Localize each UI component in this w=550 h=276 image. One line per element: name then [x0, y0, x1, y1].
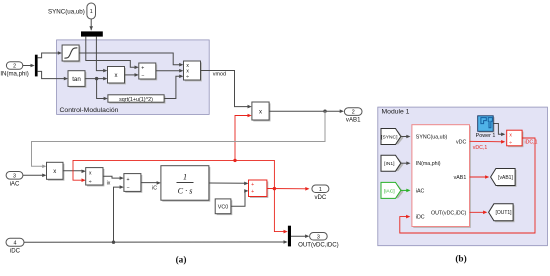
svg-text:iDC: iDC — [10, 248, 21, 255]
svg-text:iC: iC — [152, 185, 157, 191]
svg-text:+: + — [126, 177, 129, 183]
svg-text:Control-Modulación: Control-Modulación — [60, 107, 119, 114]
svg-text:÷: ÷ — [186, 75, 189, 81]
svg-text:1: 1 — [183, 172, 187, 181]
svg-text:2: 2 — [13, 64, 16, 70]
svg-text:+: + — [141, 66, 144, 72]
svg-text:2: 2 — [352, 110, 355, 116]
svg-text:OUT(vDC,iDC): OUT(vDC,iDC) — [431, 210, 467, 216]
svg-text:iAC: iAC — [10, 180, 20, 187]
svg-text:3: 3 — [317, 234, 320, 240]
svg-text:4: 4 — [14, 240, 17, 246]
svg-text:(a): (a) — [176, 254, 187, 265]
svg-text:tan: tan — [72, 76, 81, 83]
svg-text:x: x — [53, 169, 56, 175]
svg-text:(b): (b) — [455, 253, 466, 264]
svg-text:sqrt(1+u(1)^2): sqrt(1+u(1)^2) — [119, 97, 153, 103]
svg-text:[OUT1]: [OUT1] — [495, 210, 512, 216]
svg-text:vDC: vDC — [314, 194, 326, 201]
svg-text:[IN1]: [IN1] — [384, 161, 395, 167]
svg-text:x: x — [115, 73, 118, 79]
svg-text:+: + — [251, 182, 254, 188]
svg-text:3: 3 — [13, 173, 16, 179]
svg-text:VC0: VC0 — [218, 205, 229, 211]
svg-text:vDC,1: vDC,1 — [473, 145, 488, 151]
svg-text:[vAB1]: [vAB1] — [498, 175, 513, 181]
svg-text:Power 1: Power 1 — [476, 133, 496, 139]
svg-text:Module 1: Module 1 — [382, 109, 410, 116]
svg-text:vAB1: vAB1 — [346, 117, 361, 124]
svg-text:−: − — [141, 73, 144, 79]
svg-text:ix: ix — [107, 180, 111, 186]
svg-text:iDC: iDC — [416, 215, 425, 221]
svg-text:1: 1 — [90, 9, 93, 15]
svg-text:÷: ÷ — [89, 179, 92, 185]
svg-text:vAB1: vAB1 — [454, 175, 467, 181]
svg-text:1: 1 — [319, 187, 322, 193]
svg-text:C · s: C · s — [178, 186, 193, 195]
svg-text:x: x — [259, 109, 262, 115]
svg-text:OUT(vDC,iDC): OUT(vDC,iDC) — [298, 241, 339, 248]
svg-text:IN(ma,phi): IN(ma,phi) — [0, 71, 28, 78]
svg-text:+: + — [251, 189, 254, 195]
svg-text:−: − — [126, 186, 129, 192]
svg-text:SYNC(ua,ub): SYNC(ua,ub) — [416, 135, 448, 141]
svg-text:IN(ma,phi): IN(ma,phi) — [416, 161, 441, 167]
svg-text:SYNC(ua,ub): SYNC(ua,ub) — [48, 8, 85, 15]
svg-text:[SYNC]: [SYNC] — [381, 134, 398, 140]
svg-text:iAC: iAC — [416, 189, 425, 195]
svg-text:vDC: vDC — [456, 139, 466, 145]
svg-text:vmod: vmod — [213, 72, 226, 78]
svg-text:iDC,1: iDC,1 — [525, 140, 538, 146]
svg-text:[iAC]: [iAC] — [384, 188, 395, 194]
svg-text:÷: ÷ — [509, 140, 512, 146]
